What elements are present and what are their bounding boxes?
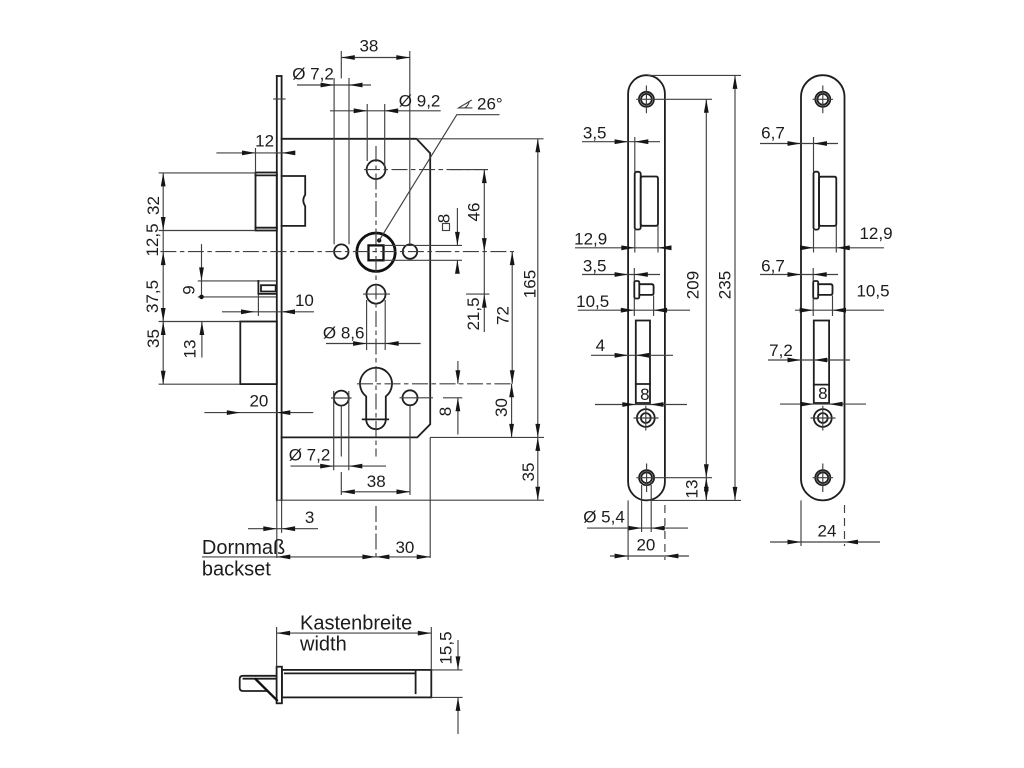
plate A dimension 209: [705, 99, 707, 477]
centerline lower holes: [331, 397, 352, 399]
dimension 9 auxiliary latch: [201, 244, 203, 297]
plate B dimension 6.7 aux: [812, 268, 814, 281]
horizontal centerline follower axis: [160, 251, 514, 253]
dimension Kastenbreite width: [276, 627, 278, 667]
auxiliary latch head: [258, 281, 276, 294]
plate B latch opening with latch: [814, 172, 820, 230]
latch bolt head: [256, 173, 277, 231]
svg-text:37,5: 37,5: [143, 280, 162, 313]
svg-text:Ø 7,2: Ø 7,2: [289, 446, 331, 465]
dimension dia 7.2 upper holes: [333, 78, 335, 244]
plate B middle screw hole: [814, 409, 832, 427]
svg-text:12,5: 12,5: [143, 223, 162, 256]
plate A dimension 3.5 top: [634, 137, 636, 172]
svg-text:Ø 7,2: Ø 7,2: [292, 65, 334, 84]
svg-text:209: 209: [684, 271, 703, 299]
plate A dimension 12.9: [634, 230, 636, 253]
svg-text:3: 3: [305, 508, 314, 527]
svg-text:9: 9: [180, 285, 199, 294]
lower hole dia 8.6: [367, 285, 386, 304]
svg-text:12,9: 12,9: [859, 224, 892, 243]
dimension 12 latch protrusion: [255, 148, 257, 173]
dimension 10 auxiliary latch depth: [257, 295, 259, 317]
dimension line left chain 32 12.5 37.5 35: [162, 173, 164, 384]
plate A dimension 10.5: [633, 299, 635, 317]
dimension dia 9.2 upper hole: [366, 104, 368, 161]
svg-text:6,7: 6,7: [761, 256, 785, 275]
bottom view faceplate cross-section: [277, 667, 282, 704]
svg-text:8: 8: [818, 384, 827, 403]
svg-text:72: 72: [494, 306, 513, 325]
plate A top extension: [648, 74, 741, 76]
svg-text:Dornmaß: Dornmaß: [202, 537, 285, 559]
svg-text:Ø 9,2: Ø 9,2: [399, 92, 441, 111]
svg-text:165: 165: [520, 270, 539, 298]
svg-text:12,9: 12,9: [574, 230, 607, 249]
plate B bottom screw hole: [815, 470, 830, 485]
svg-text:46: 46: [464, 203, 483, 222]
svg-text:13: 13: [180, 340, 199, 359]
tick mark on faceplate: [273, 98, 285, 100]
svg-text:26°: 26°: [477, 94, 503, 113]
svg-text:21,5: 21,5: [464, 297, 483, 330]
upper fixing hole dia 9.2: [367, 160, 386, 179]
follower hub circle: [357, 233, 395, 271]
svg-text:35: 35: [519, 463, 538, 482]
dimension 20 deadbolt width: [204, 412, 313, 414]
plate A bottom extension: [648, 499, 741, 501]
dimension 21.5: [483, 252, 485, 332]
svg-text:Ø 8,6: Ø 8,6: [323, 324, 365, 343]
svg-text:8: 8: [435, 214, 454, 223]
svg-text:20: 20: [636, 536, 655, 555]
plate B dimension 24: [800, 500, 802, 546]
dimension 38 top: [340, 51, 342, 78]
plate A dimension 4: [591, 354, 673, 356]
auxiliary latch guide lines: [198, 280, 276, 282]
plate B aux latch opening: [813, 281, 818, 299]
svg-text:32: 32: [144, 196, 163, 215]
latch bevel edge bold: [256, 679, 278, 700]
angle symbol 26 degrees: [459, 100, 473, 108]
svg-text:35: 35: [144, 329, 163, 348]
svg-text:3,5: 3,5: [583, 256, 607, 275]
svg-text:10,5: 10,5: [856, 282, 889, 301]
dimension 72: [511, 252, 513, 384]
svg-text:235: 235: [716, 271, 735, 299]
plate B dimension 12.9: [813, 230, 815, 253]
svg-text:3,5: 3,5: [583, 124, 607, 143]
centerline cylinder axis: [357, 383, 512, 385]
dimension 8 cylinder to hole: [457, 361, 459, 384]
svg-text:15,5: 15,5: [437, 631, 456, 664]
latch bolt tail with spring notch: [282, 176, 306, 226]
dimension 38 lower holes: [340, 406, 342, 457]
svg-text:10,5: 10,5: [576, 292, 609, 311]
plate A dimension 8 opening: [595, 404, 687, 406]
dimension dia 7.2 lower holes: [333, 391, 335, 470]
dimension 13 deadbolt: [201, 322, 203, 358]
plate A aux latch opening: [634, 281, 639, 299]
bottom view lock case: [282, 670, 431, 698]
dimension 165 case height: [417, 138, 544, 140]
cylinder screw hole left dia 7.2 lower: [334, 391, 349, 406]
cylinder screw hole right lower: [403, 390, 418, 405]
deadbolt: [240, 322, 276, 385]
plate A top screw hole: [639, 92, 654, 107]
dimension dia 8.6 lower hole: [366, 300, 368, 350]
lock case outline: [282, 139, 431, 438]
svg-text:7,2: 7,2: [769, 341, 793, 360]
svg-text:38: 38: [367, 472, 386, 491]
plate B top screw hole: [815, 92, 830, 107]
handle hole right upper: [403, 244, 417, 258]
plate A dimension 3.5 aux: [633, 268, 635, 281]
dimension 15.5 case height bottom view: [431, 669, 462, 671]
bottom view latch bolt with bevel: [240, 676, 277, 691]
svg-text:8: 8: [436, 407, 455, 416]
plate B dimension 6.7 top: [813, 137, 815, 172]
extension lines left dimensions: [159, 172, 256, 174]
dimension 35 faceplate below case: [277, 499, 544, 501]
plate A middle screw hole: [637, 409, 655, 427]
dimension square 8 spindle: [384, 244, 463, 246]
svg-text:backset: backset: [202, 558, 271, 580]
dimension Dornmass backset 30: [202, 556, 430, 558]
centerline top hole: [364, 169, 488, 171]
plate A latch opening with latch: [635, 172, 641, 230]
svg-text:Kastenbreite: Kastenbreite: [300, 613, 412, 635]
plate A deadbolt opening: [636, 321, 650, 404]
dimension 46: [450, 169, 488, 171]
svg-text:4: 4: [596, 336, 605, 355]
svg-text:12: 12: [255, 132, 274, 151]
plate A dimension 20: [627, 500, 629, 560]
plate B dimension 10.5: [812, 299, 814, 317]
svg-text:10: 10: [295, 291, 314, 310]
centerline lower hole ext for 21.5: [466, 293, 489, 295]
vertical centerline main axis: [375, 146, 377, 457]
plate B dimension 8 opening: [780, 403, 866, 405]
svg-text:38: 38: [359, 37, 378, 56]
svg-text:20: 20: [249, 392, 268, 411]
plate A dimension 235: [734, 75, 736, 500]
dimension 3 faceplate thickness: [276, 500, 278, 558]
plate A bottom screw hole: [639, 470, 654, 485]
faceplate (Stulp) side view: [276, 76, 278, 500]
svg-text:24: 24: [818, 522, 837, 541]
svg-text:30: 30: [492, 398, 511, 417]
handle hole left dia 7.2 upper: [334, 244, 348, 258]
plate A dimension dia 5.4: [641, 485, 643, 532]
profile cylinder hole PZ: [360, 368, 392, 429]
strike plate B outline rounded: [801, 75, 845, 500]
svg-text:6,7: 6,7: [761, 124, 785, 143]
svg-text:30: 30: [395, 538, 414, 557]
svg-text:Ø 5,4: Ø 5,4: [583, 508, 625, 527]
plate B deadbolt opening: [814, 321, 829, 404]
svg-text:8: 8: [640, 385, 649, 404]
spindle square hole 8mm: [369, 245, 384, 260]
case right edge extension down: [429, 437, 431, 558]
svg-text:width: width: [299, 633, 347, 655]
plate B dimension 7.2: [768, 359, 850, 361]
svg-text:13: 13: [683, 480, 702, 499]
plate A dimension 13: [705, 478, 707, 501]
strike plate A outline rounded: [628, 75, 665, 500]
dimension 30 cylinder to case bottom: [511, 384, 513, 438]
leader line 26 degrees to spindle: [377, 238, 381, 242]
